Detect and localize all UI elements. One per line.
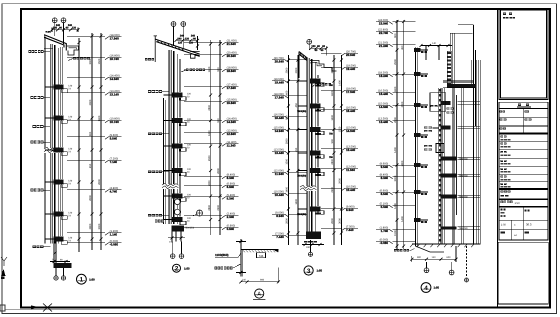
bottom dim text section 1 xyxy=(50,258,70,263)
svg-text:7500(50): 7500(50) xyxy=(459,196,468,199)
window mullion lines section 1 xyxy=(61,47,63,236)
floor slab s1-1 xyxy=(45,85,73,93)
right elevation annotation s3-2 xyxy=(321,64,358,70)
svg-text:600: 600 xyxy=(447,256,452,259)
svg-text:1400: 1400 xyxy=(295,198,298,204)
ground slope section 4 xyxy=(394,246,444,252)
svg-text:14.340: 14.340 xyxy=(110,77,120,81)
fold mark blob left xyxy=(1,277,5,280)
svg-text:900: 900 xyxy=(417,256,422,259)
svg-text:120: 120 xyxy=(185,37,190,40)
svg-text:7500(50): 7500(50) xyxy=(297,174,306,177)
title block separator line xyxy=(497,9,499,308)
elevation annotation s2-5 xyxy=(184,98,239,104)
section number bubble 3 xyxy=(304,266,323,275)
left vertical dimension line section 3 a xyxy=(286,55,290,245)
left annotation label s2-3 xyxy=(148,170,169,173)
left annotation label s1-4 xyxy=(31,141,51,144)
wall break symbol section 3 xyxy=(300,185,317,191)
tall right vertical section 4 xyxy=(458,25,474,244)
svg-text:1:50: 1:50 xyxy=(434,286,440,290)
svg-text:2900: 2900 xyxy=(394,59,397,65)
svg-text:19.440: 19.440 xyxy=(275,80,285,84)
below footing structure section 2 xyxy=(168,232,185,244)
section number bubble 2 xyxy=(173,264,191,272)
floor slab s1-3 xyxy=(45,148,73,156)
left vertical dimension line section 4 a xyxy=(394,20,398,250)
wall section detail 3 group xyxy=(272,39,358,275)
svg-text:23.940: 23.940 xyxy=(379,21,389,25)
left annotation label s1-2 xyxy=(31,96,51,99)
left label footing section 2 xyxy=(155,220,164,223)
svg-text:17.940: 17.940 xyxy=(110,36,120,40)
left elevation annotation s3-6 xyxy=(272,148,307,154)
svg-text:2900: 2900 xyxy=(208,155,211,161)
floor slab s3-2 xyxy=(297,104,324,113)
svg-text:2800: 2800 xyxy=(286,218,289,224)
elevation annotation s2-13 xyxy=(184,224,239,230)
svg-text:3000: 3000 xyxy=(394,175,397,181)
wall section detail 2 group xyxy=(145,22,239,273)
left elevation annotation s4-10 xyxy=(376,189,415,195)
vertical dimension line section 2 b xyxy=(217,40,221,235)
floor slab s1-4 xyxy=(45,180,73,188)
svg-text:3000: 3000 xyxy=(98,223,101,229)
svg-text:16.440: 16.440 xyxy=(379,92,389,96)
left box on shaft section 4 xyxy=(430,93,446,112)
shaft slab band 4 section 4 xyxy=(441,156,480,160)
svg-text:240: 240 xyxy=(191,34,196,37)
svg-text:1400: 1400 xyxy=(98,115,101,121)
svg-text:36.3: 36.3 xyxy=(526,222,532,226)
svg-text:1400: 1400 xyxy=(394,203,397,209)
cut line arrow on bottom border xyxy=(31,304,52,312)
axis bubble C section 2 top xyxy=(171,22,176,46)
floor slab s2-6 xyxy=(164,217,192,225)
svg-text:1: 1 xyxy=(80,277,84,284)
axis bubble B section 1 top xyxy=(61,18,66,44)
elevation annotation s2-4 xyxy=(184,83,239,89)
section number bubble 4 xyxy=(421,283,439,293)
elevation annotation s2-9 xyxy=(184,173,239,179)
elevation annotation s1-4 xyxy=(67,90,122,96)
right elevation annotation s3-8 xyxy=(321,185,358,191)
svg-text:7500(50): 7500(50) xyxy=(297,110,306,113)
elevation annotation s1-9 xyxy=(67,230,122,236)
left elevation annotation s3-9 xyxy=(272,211,307,217)
svg-text:13.440: 13.440 xyxy=(346,148,356,152)
svg-text:6.540: 6.540 xyxy=(381,192,389,196)
svg-text:450: 450 xyxy=(401,45,404,50)
title block box A xyxy=(499,189,548,199)
svg-text:7500(50): 7500(50) xyxy=(297,213,306,216)
title block box B xyxy=(499,200,548,207)
left elevation annotation s4-13 xyxy=(376,238,415,244)
title block empty box xyxy=(498,242,548,304)
left annotation label s2-1 xyxy=(148,90,169,93)
svg-text:19.440: 19.440 xyxy=(346,67,356,71)
membrane note section 3 xyxy=(312,83,331,87)
left elevation annotation s3-5 xyxy=(272,126,307,132)
left elevation annotation s4-4 xyxy=(376,71,415,77)
svg-text:14.940: 14.940 xyxy=(379,105,389,109)
wall dim ticks section 1 xyxy=(78,38,81,252)
floor slab s4-6 xyxy=(414,190,428,195)
svg-text:7.140: 7.140 xyxy=(110,160,118,164)
svg-text:13.440: 13.440 xyxy=(275,151,285,155)
title block rows section xyxy=(499,134,548,189)
elevation annotation s2-10 xyxy=(184,182,239,188)
footing section 2 xyxy=(171,225,194,231)
parapet coping section 1 xyxy=(44,31,66,51)
shaft mid verticals section 4 xyxy=(452,88,457,244)
svg-text:1500: 1500 xyxy=(394,230,397,236)
svg-text:16.740: 16.740 xyxy=(110,57,120,61)
svg-text:900: 900 xyxy=(89,131,92,136)
svg-text:908: 908 xyxy=(260,279,265,282)
svg-text:240: 240 xyxy=(180,34,185,37)
top dimension line section 2 xyxy=(175,34,200,50)
right elevation annotation s3-4 xyxy=(321,106,358,112)
shaft slab band 3 section 4 xyxy=(441,125,480,129)
mid annotations section 4 xyxy=(424,127,439,133)
title block table 1 xyxy=(499,108,548,133)
floor slab s3-6 xyxy=(297,207,324,216)
elevation annotation s2-3 xyxy=(184,66,239,72)
gutter profile section 1 xyxy=(67,46,79,55)
svg-text:7.440: 7.440 xyxy=(346,228,354,232)
bottom dim marks section 3 xyxy=(302,243,324,249)
right elevation annotation s3-10 xyxy=(321,225,358,231)
svg-text:3000: 3000 xyxy=(89,58,92,64)
svg-text:7.440: 7.440 xyxy=(276,235,284,239)
svg-text:5.340: 5.340 xyxy=(227,196,235,200)
svg-text:7500(50): 7500(50) xyxy=(185,227,195,230)
svg-text:450: 450 xyxy=(295,103,298,108)
svg-text:9.540: 9.540 xyxy=(110,136,118,140)
svg-text:1:50: 1:50 xyxy=(501,223,507,226)
svg-text:5.040: 5.040 xyxy=(381,205,389,209)
left elevation annotation s4-1 xyxy=(376,19,415,25)
svg-text:240: 240 xyxy=(53,27,58,30)
left annotation label s1-3 xyxy=(33,125,51,128)
svg-text:240: 240 xyxy=(56,24,61,27)
svg-text:11.940: 11.940 xyxy=(346,168,355,172)
detail A note label xyxy=(215,264,241,269)
pipe circle b section 2 xyxy=(175,209,181,215)
svg-text:2900: 2900 xyxy=(339,178,342,184)
elevation annotation s2-2 xyxy=(184,51,239,57)
left annotation label s2-2 xyxy=(148,132,169,135)
left elevation annotation s4-9 xyxy=(376,173,415,179)
svg-text:3000: 3000 xyxy=(339,218,342,224)
insulation hatched strip top section 4 xyxy=(447,51,451,86)
sloped roof section 2 xyxy=(154,36,200,62)
elevation annotation s2-11 xyxy=(184,194,239,200)
wall leaf lines section 1 xyxy=(44,34,59,243)
svg-text:4: 4 xyxy=(424,285,428,292)
floor slab s1-2 xyxy=(45,116,73,124)
svg-text:20.640: 20.640 xyxy=(275,59,285,63)
axis bubble C section 2 bottom xyxy=(170,242,175,259)
svg-text:2900: 2900 xyxy=(401,101,404,107)
left elevation annotation s4-7 xyxy=(376,117,415,123)
svg-text:1.740: 1.740 xyxy=(381,229,389,233)
svg-text:1:50: 1:50 xyxy=(515,202,521,205)
axis bubble E section 3 bottom xyxy=(308,240,312,256)
svg-text:900: 900 xyxy=(394,33,397,38)
footing section 3 xyxy=(304,232,321,243)
floor slab s4-7 xyxy=(414,218,428,223)
elevation annotation s2-6 xyxy=(184,117,239,123)
svg-text:1400: 1400 xyxy=(286,186,289,192)
roof membrane note section 1 xyxy=(68,57,90,61)
detail A group xyxy=(215,239,280,300)
detail callout bubble a section 4 xyxy=(424,262,429,273)
svg-text:746: 746 xyxy=(259,255,264,258)
svg-text:7500(50): 7500(50) xyxy=(459,158,468,161)
axis bubble A section 1 top xyxy=(52,18,57,36)
left elevation annotation s3-10 xyxy=(272,232,307,238)
svg-text:17.940: 17.940 xyxy=(275,95,285,99)
shaft machine slab section 4 xyxy=(443,81,476,88)
svg-text:18.240: 18.240 xyxy=(379,74,389,78)
wall lines section 4 xyxy=(415,48,417,246)
axis bubble E section 3 top xyxy=(307,39,312,50)
wall section detail 4 group xyxy=(376,19,480,293)
title block big box xyxy=(499,9,548,100)
svg-text:450: 450 xyxy=(295,147,298,152)
floor slab s1-6 xyxy=(45,237,73,245)
left annotation label s1-5 xyxy=(31,189,51,192)
left annotation label s1-1 xyxy=(29,50,51,53)
title block band xyxy=(499,102,548,108)
left elevation annotation s4-6 xyxy=(376,102,415,108)
right elevation annotation s3-7 xyxy=(321,165,358,171)
svg-text:2900: 2900 xyxy=(295,67,298,73)
shaft top lines section 4 xyxy=(450,33,473,86)
svg-text:20.640: 20.640 xyxy=(346,53,356,57)
top dimension line section 1 xyxy=(51,24,80,32)
detail A right edge xyxy=(277,268,279,284)
elevation annotation s1-5 xyxy=(67,117,122,123)
svg-text:2800: 2800 xyxy=(401,160,404,166)
svg-text:1:50: 1:50 xyxy=(184,267,190,271)
svg-text:15.840: 15.840 xyxy=(227,101,237,105)
detail A label 1100 xyxy=(215,253,241,257)
svg-text:16.440: 16.440 xyxy=(346,109,356,113)
shaft right verticals section 4 xyxy=(462,50,481,244)
detail A mid tick xyxy=(236,271,246,274)
svg-text:14.340: 14.340 xyxy=(227,120,237,124)
left elevation annotation s4-5 xyxy=(376,89,415,95)
svg-text:21.240: 21.240 xyxy=(379,44,389,48)
floor slab s3-5 xyxy=(297,168,324,177)
detail A vertical member xyxy=(241,239,243,277)
elevation annotation s1-8 xyxy=(67,187,122,193)
left annotation label s2-4 xyxy=(148,214,169,217)
elevation annotation s1-7 xyxy=(67,157,122,163)
axis bubble D section 2 top xyxy=(181,22,186,50)
svg-text:2800: 2800 xyxy=(208,204,211,210)
mid annotations b section 4 xyxy=(447,108,454,114)
wall leaf lines section 3 xyxy=(307,58,315,232)
floor slab s4-2 xyxy=(414,72,428,77)
svg-text:1400: 1400 xyxy=(286,90,289,96)
svg-text:13.440: 13.440 xyxy=(379,120,389,124)
thin reference line bottom left xyxy=(5,308,100,310)
svg-text:14.940: 14.940 xyxy=(275,129,285,133)
svg-text:1400: 1400 xyxy=(331,90,334,96)
left elevation annotation s3-3 xyxy=(272,93,307,99)
elevation annotation s2-12 xyxy=(184,212,239,218)
axis bubble D section 2 bottom xyxy=(179,242,184,259)
top dimension line section 4 xyxy=(420,42,453,60)
window mullion lines section 3 xyxy=(317,75,319,206)
svg-text:120: 120 xyxy=(178,41,183,44)
svg-text:120: 120 xyxy=(311,45,316,48)
svg-text:20.340: 20.340 xyxy=(227,54,237,58)
svg-text:8.340: 8.340 xyxy=(381,176,389,180)
svg-text:2800: 2800 xyxy=(89,195,92,201)
svg-text:2.340: 2.340 xyxy=(227,215,235,219)
parapet coping section 3 xyxy=(299,52,311,79)
elevation annotation s2-1 xyxy=(184,39,239,45)
svg-text:10.740: 10.740 xyxy=(110,120,120,124)
svg-text:1400: 1400 xyxy=(331,114,334,120)
membrane note section 2 xyxy=(181,69,205,73)
floor slab s1-5 xyxy=(45,212,73,220)
left elevation annotation s4-3 xyxy=(376,41,415,47)
svg-text:1:50: 1:50 xyxy=(89,278,95,282)
svg-text:2: 2 xyxy=(175,266,179,273)
svg-text:900: 900 xyxy=(331,139,334,144)
svg-text:1.140: 1.140 xyxy=(110,232,118,236)
svg-text:18.840: 18.840 xyxy=(227,69,237,73)
floor slab s2-4 xyxy=(164,168,192,176)
floor slab s4-1 xyxy=(414,48,428,53)
bottom dimension line section 4 xyxy=(410,246,457,262)
svg-text:2800: 2800 xyxy=(331,158,334,164)
shaft slab band 7 section 4 xyxy=(441,227,480,231)
detail A bottom dimension xyxy=(239,279,280,284)
title block table 2 xyxy=(499,207,548,240)
svg-text:240: 240 xyxy=(68,24,73,27)
detail callout bubble b section 4 xyxy=(449,262,454,275)
left vertical dimension line section 3 b xyxy=(295,55,299,245)
svg-text:140: 140 xyxy=(432,42,437,45)
svg-text:13.140: 13.140 xyxy=(110,92,120,96)
svg-text:11.340: 11.340 xyxy=(227,143,236,147)
footing section 1 xyxy=(54,260,72,268)
left elevation annotation s3-8 xyxy=(272,190,307,196)
svg-text:22.740: 22.740 xyxy=(379,31,389,35)
shaft slab band 2 section 4 xyxy=(441,101,480,105)
floor slab s4-4 xyxy=(414,133,428,138)
svg-text:1100(650): 1100(650) xyxy=(215,253,229,257)
axis bubble A section 1 bottom xyxy=(54,268,58,280)
left elevation annotation s4-8 xyxy=(376,162,415,168)
floor slab s3-1 xyxy=(298,79,334,88)
detail A top tick xyxy=(236,240,246,243)
stepped gutter section 3 xyxy=(311,61,337,72)
svg-text:12.840: 12.840 xyxy=(227,132,237,136)
left elevation annotation s3-1 xyxy=(272,57,307,63)
svg-text:14.940: 14.940 xyxy=(346,129,356,133)
svg-text:3: 3 xyxy=(307,268,311,275)
svg-text:2800: 2800 xyxy=(98,179,101,185)
svg-text:10.440: 10.440 xyxy=(275,193,285,197)
right elevation annotation s3-5 xyxy=(321,126,358,132)
svg-text:240: 240 xyxy=(177,37,182,40)
title block group xyxy=(498,9,549,308)
svg-text:2800: 2800 xyxy=(217,168,220,174)
window mullion lines section 2 xyxy=(179,59,181,216)
left elevation annotation s3-7 xyxy=(272,169,307,175)
elevation annotation s1-10 xyxy=(67,240,122,246)
top dimension line section 3 xyxy=(309,45,328,55)
svg-text:0.840: 0.840 xyxy=(227,227,235,231)
svg-text:17.340: 17.340 xyxy=(227,86,237,90)
svg-text:1400: 1400 xyxy=(401,216,404,222)
svg-text:7500(50): 7500(50) xyxy=(459,227,468,230)
svg-text:1400: 1400 xyxy=(394,147,397,153)
svg-text:11.940: 11.940 xyxy=(275,172,284,176)
elevation annotation s2-8 xyxy=(184,141,239,147)
left elevation annotation s4-12 xyxy=(376,226,415,232)
right elevation annotation s3-6 xyxy=(321,145,358,151)
title block logo text xyxy=(503,13,515,19)
detail A slab with hatch xyxy=(241,249,279,252)
svg-text:2800: 2800 xyxy=(394,117,397,123)
svg-text:2900: 2900 xyxy=(331,186,334,192)
svg-text:17.940: 17.940 xyxy=(346,90,356,94)
svg-text:-0.060: -0.060 xyxy=(380,241,389,245)
elevation annotation s2-7 xyxy=(184,129,239,135)
svg-text:(50): (50) xyxy=(64,260,68,263)
floor slab s3-3 xyxy=(298,127,334,136)
svg-text:4.740: 4.740 xyxy=(110,189,118,193)
eave gutter profile section 2 xyxy=(190,51,200,58)
floor slab s2-3 xyxy=(164,144,192,152)
wall break symbol section 1 xyxy=(44,147,61,153)
svg-text:10.440: 10.440 xyxy=(346,188,356,192)
shaft left wall cluster section 4 xyxy=(439,88,445,244)
svg-text:140: 140 xyxy=(432,256,437,259)
svg-text:120: 120 xyxy=(72,27,77,30)
svg-text:2900: 2900 xyxy=(217,204,220,210)
svg-text:2800: 2800 xyxy=(286,138,289,144)
detail A box 746 xyxy=(257,253,266,258)
wall break symbol section 2 xyxy=(162,183,179,189)
svg-text:2800: 2800 xyxy=(331,67,334,73)
elevation annotation s1-2 xyxy=(67,54,122,60)
svg-text:8.340: 8.340 xyxy=(227,176,235,180)
svg-text:1500: 1500 xyxy=(98,58,101,64)
elevation annotation s1-1 xyxy=(67,34,122,40)
detail callout circle section 2 xyxy=(193,210,203,216)
vertical dimension line section 1 b xyxy=(98,33,102,250)
vertical dimension line section 1 a xyxy=(89,33,93,250)
ground line section 4 xyxy=(410,244,480,247)
lower blobs section 4 xyxy=(424,144,444,153)
pipe circle a section 2 xyxy=(175,199,181,205)
detail bubble A xyxy=(253,289,265,300)
svg-text:1400: 1400 xyxy=(339,80,342,86)
vertical dimension line section 2 a xyxy=(208,40,212,235)
shaft slab band 6 section 4 xyxy=(441,194,480,198)
floor slab s4-5 xyxy=(414,163,428,168)
